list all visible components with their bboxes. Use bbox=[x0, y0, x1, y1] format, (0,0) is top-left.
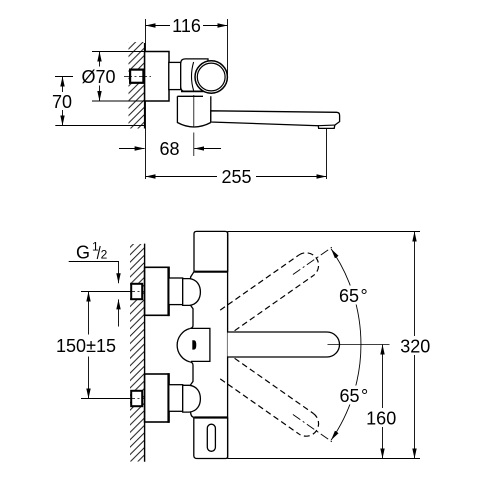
dimension 116 bbox=[146, 25, 228, 27]
spout holder cylinder (top view) bbox=[177, 96, 210, 127]
G 1/2 lower arrow bbox=[118, 299, 120, 326]
lower escutcheon (front view) bbox=[145, 374, 169, 422]
upper inlet square (front view) bbox=[131, 284, 142, 299]
dimension 320 bbox=[414, 232, 416, 459]
body bottom cap bbox=[194, 417, 228, 458]
extension line right of knob bbox=[227, 19, 229, 75]
knob rectangle (front view) bbox=[191, 328, 210, 361]
escutcheon (top view) bbox=[145, 52, 169, 102]
wall face line (front view) bbox=[144, 244, 146, 462]
upper centerline (front view) bbox=[82, 291, 145, 293]
upper escutcheon (front view) bbox=[145, 267, 169, 315]
dimension 68 bbox=[119, 148, 145, 150]
svg-text:Ø70: Ø70 bbox=[81, 67, 115, 87]
body top cap bbox=[194, 231, 228, 271]
centerline of upper dashed spout bbox=[293, 247, 332, 274]
label 65 deg lower bbox=[338, 386, 372, 405]
svg-text:150±15: 150±15 bbox=[56, 336, 116, 356]
svg-text:65°: 65° bbox=[340, 386, 369, 406]
handle housing (top view) bbox=[181, 59, 208, 92]
320/160 extension bottom bbox=[228, 458, 421, 460]
knob cylinder silhouette arc bbox=[192, 62, 194, 91]
svg-text:320: 320 bbox=[400, 336, 430, 356]
body right edge bbox=[227, 231, 229, 458]
spout (top view) bbox=[211, 111, 340, 129]
svg-text:1: 1 bbox=[92, 239, 99, 253]
upper connection nut bbox=[183, 279, 201, 306]
solid spout capsule (front view) bbox=[228, 332, 340, 357]
oval slot in bottom cap bbox=[207, 424, 215, 451]
body centerline (top view) bbox=[193, 95, 195, 127]
wall hatching (front view) bbox=[130, 244, 145, 462]
wall hatching (top view) bbox=[129, 42, 145, 129]
spout nozzle crease bbox=[318, 124, 335, 127]
dimension 150+-15 bbox=[88, 292, 90, 399]
inlet square fitting (top view) bbox=[130, 70, 143, 83]
lower inlet square (front view) bbox=[131, 391, 142, 406]
body left edge between nut and knob bbox=[190, 305, 193, 328]
dimension Ø70 extension lines bbox=[92, 51, 145, 53]
320 extension top bbox=[228, 231, 421, 233]
spout centerline extension bbox=[328, 344, 390, 346]
extension line at nozzle bbox=[326, 129, 328, 179]
dashed spout rotated up bbox=[220, 248, 323, 331]
knob semicircle (front view) bbox=[177, 329, 190, 362]
svg-text:116: 116 bbox=[172, 16, 201, 36]
dimension 70 tick bbox=[55, 76, 73, 78]
svg-text:2: 2 bbox=[101, 247, 108, 261]
label 65 deg upper bbox=[337, 286, 371, 305]
wall face line (top view) bbox=[144, 43, 146, 129]
neck (top view) bbox=[169, 62, 181, 89]
dimension 150 extension lines bbox=[81, 291, 130, 293]
svg-text:70: 70 bbox=[52, 92, 72, 112]
body left edge below lower nut bbox=[191, 412, 195, 417]
lower connection nut bbox=[183, 385, 201, 412]
dimension 70 bbox=[62, 77, 64, 126]
lower neck (front view) bbox=[169, 385, 183, 412]
svg-text:255: 255 bbox=[221, 167, 251, 187]
knob inner circle (top view) bbox=[197, 63, 225, 91]
centerline of inlet (top view) bbox=[124, 76, 151, 78]
svg-text:68: 68 bbox=[159, 139, 179, 159]
extension line at wall face bbox=[145, 19, 147, 179]
dimension 255 bbox=[146, 176, 327, 178]
knob black pill bbox=[192, 340, 196, 349]
svg-text:65°: 65° bbox=[339, 286, 368, 306]
dimension Ø70 bbox=[99, 52, 101, 102]
G 1/2 leader line bbox=[69, 262, 119, 284]
svg-text:160: 160 bbox=[366, 408, 396, 428]
angle dimension arc bbox=[331, 249, 361, 440]
body left edge upper chamfer bbox=[191, 272, 194, 279]
bottom reference line (spout underside) bbox=[55, 125, 144, 127]
upper neck (front view) bbox=[169, 278, 183, 305]
knob outer circle (top view) bbox=[195, 61, 227, 93]
centerline of lower dashed spout bbox=[293, 414, 332, 441]
dimension 160 bbox=[382, 345, 384, 459]
body left edge between knob and lower nut bbox=[190, 362, 193, 385]
dashed spout rotated down bbox=[220, 358, 323, 441]
svg-text:G: G bbox=[76, 243, 90, 263]
lower centerline (front view) bbox=[82, 398, 145, 400]
